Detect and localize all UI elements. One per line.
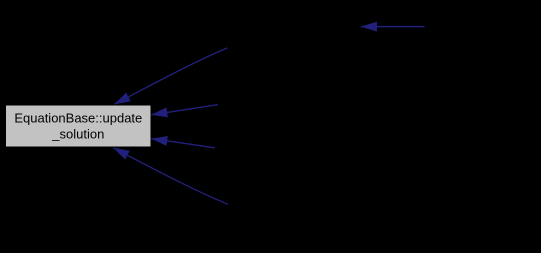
- node EquationBase::update_solution: [6, 106, 151, 147]
- edge arrow caller3 -> update_solution (lower straight): [151, 139, 215, 148]
- edge arrow caller4 -> update_solution (bottom curve): [113, 148, 228, 205]
- svg-text:EquationBase::update: EquationBase::update: [14, 110, 142, 125]
- edge arrow caller5 -> caller1 (horizontal top right): [361, 26, 425, 28]
- svg-text:_solution: _solution: [51, 127, 104, 142]
- edge arrow caller2 -> update_solution (upper straight): [151, 105, 218, 115]
- edge arrow caller1 -> update_solution (top curve): [114, 48, 227, 104]
